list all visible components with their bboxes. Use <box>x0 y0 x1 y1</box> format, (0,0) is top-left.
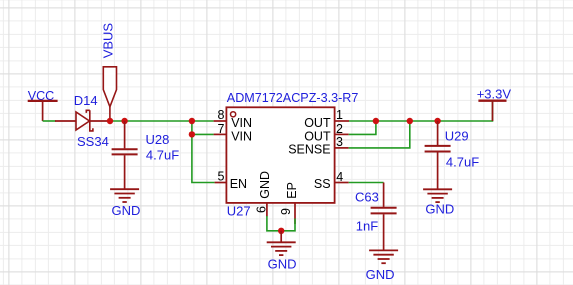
svg-text:VIN: VIN <box>231 129 252 143</box>
svg-text:3: 3 <box>336 135 343 149</box>
junction U28 <box>121 118 127 124</box>
svg-text:SS: SS <box>314 177 331 191</box>
svg-text:1: 1 <box>336 108 343 122</box>
svg-text:OUT: OUT <box>304 116 331 130</box>
pin 2 OUT <box>304 122 348 144</box>
power port +3.3V <box>477 87 512 121</box>
svg-text:GND: GND <box>366 267 395 282</box>
ground GND (pins 6,9) <box>267 242 297 271</box>
ground GND (C63) <box>366 250 399 282</box>
svg-text:VIN: VIN <box>231 116 252 130</box>
diode D14 SS34 (schottky) <box>55 93 110 149</box>
junction bottom ground <box>278 228 284 234</box>
svg-text:9: 9 <box>279 208 293 215</box>
svg-text:U27: U27 <box>227 203 251 218</box>
capacitor U28 4.7uF <box>112 121 180 189</box>
pin 3 SENSE <box>288 135 348 156</box>
wire pin6 to pin9 ground link <box>267 216 295 231</box>
capacitor C63 1nF <box>355 183 397 251</box>
power port VCC <box>28 89 58 121</box>
svg-text:6: 6 <box>255 206 269 213</box>
ground GND (U29) <box>423 189 454 216</box>
svg-text:GND: GND <box>112 203 141 218</box>
op IC U27 ADM7172ACPZ-3.3-R7 <box>226 91 358 218</box>
junction EN riser <box>189 118 195 124</box>
svg-text:C63: C63 <box>355 190 379 205</box>
wire junction to ground <box>280 231 282 242</box>
wire pin3 SENSE riser <box>349 121 410 148</box>
capacitor U29 4.7uF <box>425 121 480 189</box>
svg-text:4.7uF: 4.7uF <box>146 147 179 162</box>
svg-text:5: 5 <box>218 169 225 183</box>
svg-text:1nF: 1nF <box>356 218 378 233</box>
junction pin2 <box>373 118 379 124</box>
pin 9 EP <box>279 182 299 224</box>
pin 1 OUT <box>304 108 349 130</box>
pin 4 SS <box>314 170 349 191</box>
wire pin7 <box>192 133 214 135</box>
wire VCC to D14 anode <box>43 120 56 122</box>
svg-text:GND: GND <box>425 202 454 217</box>
pin 6 GND <box>255 171 273 216</box>
wire pin1 OUT net to +3.3V <box>349 102 493 122</box>
svg-text:EP: EP <box>285 182 299 199</box>
svg-text:U28: U28 <box>146 132 170 147</box>
svg-text:ADM7172ACPZ-3.3-R7: ADM7172ACPZ-3.3-R7 <box>227 91 359 105</box>
svg-text:4.7uF: 4.7uF <box>446 154 479 169</box>
junction VBUS <box>107 118 113 124</box>
svg-text:SS34: SS34 <box>77 134 109 149</box>
svg-text:GND: GND <box>258 171 272 199</box>
svg-text:EN: EN <box>230 177 247 191</box>
svg-text:GND: GND <box>268 256 297 271</box>
wire pin2 riser <box>349 121 376 134</box>
svg-text:8: 8 <box>218 108 225 122</box>
svg-text:U29: U29 <box>445 129 469 144</box>
pin 5 EN <box>215 169 247 191</box>
svg-text:OUT: OUT <box>304 129 331 143</box>
net port VBUS <box>101 23 117 121</box>
svg-text:+3.3V: +3.3V <box>477 87 512 102</box>
pin 7 VIN <box>214 122 252 144</box>
svg-text:D14: D14 <box>74 93 98 108</box>
svg-text:SENSE: SENSE <box>288 142 330 156</box>
junction pin7 <box>189 131 195 137</box>
svg-text:7: 7 <box>218 122 225 136</box>
wire main top net D14 to pin8 <box>110 120 214 122</box>
junction U29 <box>434 118 440 124</box>
svg-text:2: 2 <box>336 122 343 136</box>
wire EN riser <box>192 121 215 183</box>
svg-text:VBUS: VBUS <box>101 23 116 59</box>
svg-text:4: 4 <box>336 170 343 184</box>
wire pin4 SS to C63 <box>349 182 384 184</box>
ground GND (U28) <box>110 189 140 218</box>
pin 8 VIN <box>214 108 252 130</box>
junction pin3 <box>407 118 413 124</box>
